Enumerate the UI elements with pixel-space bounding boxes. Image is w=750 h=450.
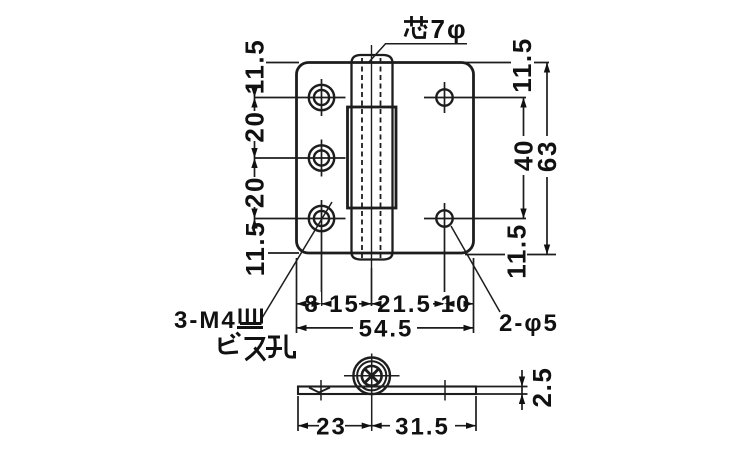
dim line 63	[546, 63, 548, 255]
ext line top edge right	[465, 62, 549, 64]
barrel outer circle	[353, 358, 390, 395]
ext/crosshair hole L3	[255, 218, 346, 220]
dim line 23 / 31.5	[298, 425, 476, 427]
ext line side view right	[475, 396, 477, 431]
svg-text:11.5: 11.5	[240, 39, 270, 95]
hinge barrel right edge	[391, 62, 393, 254]
ext line bottom edge right	[465, 254, 556, 256]
screw hole left 1 (countersunk)	[309, 85, 334, 110]
barrel bottom cap	[352, 253, 393, 260]
ext line bar bottom	[477, 393, 528, 395]
arrowheads bottom dimension chains	[297, 301, 307, 307]
ext/crosshair hole R1	[424, 97, 526, 99]
svg-text:2.5: 2.5	[527, 367, 557, 408]
tick hole left in side view	[320, 380, 322, 401]
leader underline for core label	[369, 44, 467, 62]
left dimension line	[254, 58, 256, 256]
leader line to 3-M4 screw holes	[262, 202, 332, 318]
hole right bottom (phi5)	[436, 210, 452, 226]
crosshair vertical hole L1	[321, 79, 323, 116]
pin hidden line right (dashed)	[380, 58, 382, 258]
hinge plate outline	[297, 63, 474, 254]
crosshair vertical hole R2 + extension to bottom dim	[444, 203, 446, 306]
text gap rects bottom chains	[303, 292, 321, 315]
dim line 2.5 vertical	[521, 370, 523, 410]
kanji sara (dish/countersunk)	[237, 309, 263, 328]
arrowheads 40 and 63 dims	[520, 98, 526, 108]
arrowheads left dimension chain	[251, 98, 257, 108]
ext line plate right edge down	[473, 258, 475, 333]
middle knuckle rectangle	[348, 107, 397, 208]
screw hole left 3 (countersunk)	[309, 206, 334, 231]
side view centerline horizontal	[344, 375, 400, 377]
text gap rects left chain	[245, 39, 265, 95]
svg-text:15: 15	[329, 291, 360, 318]
pin centerline vertical	[371, 45, 373, 268]
svg-text:21.5: 21.5	[377, 291, 432, 318]
katakana SU	[245, 339, 266, 361]
pin cross pattern	[365, 370, 378, 383]
side view plate bar	[298, 387, 476, 395]
svg-text:8: 8	[304, 291, 319, 318]
ext line barrel center down	[371, 268, 373, 306]
screw hole left 2 (countersunk)	[309, 145, 334, 170]
arrowheads 23 / 31.5 dims	[298, 423, 308, 429]
svg-text:2-φ5: 2-φ5	[499, 310, 559, 337]
pin circle	[362, 366, 382, 386]
countersink marks in bar	[309, 388, 330, 393]
ext line plate left edge down	[296, 258, 298, 333]
text gap rects 23 / 31.5	[319, 414, 345, 437]
text gap rects right dims	[511, 39, 534, 92]
svg-text:3-M4: 3-M4	[174, 307, 237, 334]
svg-text:11.5: 11.5	[502, 223, 532, 279]
tick hole right in side view	[444, 380, 446, 401]
svg-text:11.5: 11.5	[240, 221, 270, 277]
hinge barrel left edge	[350, 62, 352, 254]
crosshair vertical hole L2	[321, 140, 323, 177]
ext/crosshair hole R2	[424, 218, 526, 220]
svg-text:31.5: 31.5	[395, 414, 450, 441]
dim line 40	[523, 98, 525, 219]
pin hidden line left (dashed)	[361, 58, 363, 258]
svg-text:10: 10	[441, 291, 472, 318]
svg-text:20: 20	[240, 176, 270, 208]
crosshair vertical hole L3 + extension to bottom dim	[321, 200, 323, 306]
label core 7 phi : kanji SHIN (core)	[404, 16, 428, 38]
thickness 2.5 dimension	[477, 370, 528, 410]
svg-text:63: 63	[532, 140, 562, 172]
ext/crosshair hole L2	[255, 157, 346, 159]
barrel inner circle	[357, 361, 386, 390]
svg-text:20: 20	[240, 110, 270, 142]
ext line bottom edge left	[268, 252, 299, 254]
dim line 54.5	[297, 327, 474, 329]
barrel top cap	[352, 55, 393, 63]
ext/crosshair hole L1	[255, 97, 346, 99]
label bisu-kou (screw hole) katakana BI	[220, 333, 240, 354]
arrowheads 2.5 dim	[519, 377, 525, 387]
hole right top (phi5)	[436, 89, 452, 105]
svg-text:7φ: 7φ	[431, 14, 468, 44]
ext line bar top	[477, 386, 528, 388]
side view centerline vertical / ext to dim	[371, 354, 373, 432]
ext line top edge left	[266, 62, 299, 64]
svg-text:11.5: 11.5	[507, 37, 537, 93]
svg-text:54.5: 54.5	[359, 316, 414, 343]
ext line side view left	[297, 396, 299, 431]
leader line to 2-phi5 holes	[451, 226, 500, 312]
crosshair vertical hole R1	[444, 82, 446, 113]
kanji KOU (hole)	[266, 335, 295, 358]
svg-text:23: 23	[316, 414, 347, 441]
chain dim line 8/15/21.5/10	[297, 303, 474, 305]
